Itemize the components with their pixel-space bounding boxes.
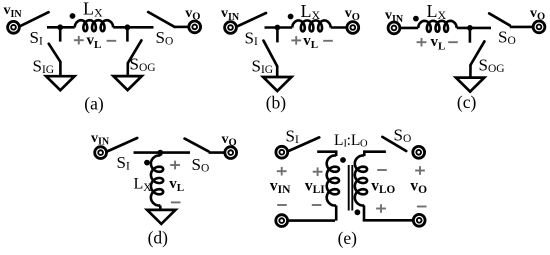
wire top node (d) [134, 151, 191, 154]
plus sign vL (d) [170, 161, 180, 170]
minus sign vL (a) [107, 40, 117, 42]
switch SO blade (a) [148, 12, 174, 27]
stub SIG-gnd (a) [59, 62, 62, 76]
svg-text:vLO: vLO [371, 177, 395, 195]
wire to bottom-left terminal (e) [289, 219, 335, 222]
svg-text:(b): (b) [266, 92, 287, 112]
svg-text:(c): (c) [457, 92, 477, 112]
terminal bottom-right (e) [413, 214, 425, 226]
wire node A left (a) [47, 26, 75, 29]
wire secondary bottom corner (e) [363, 206, 366, 221]
switch SI blade (b) [237, 13, 266, 26]
wire vIN-LX (c) [401, 27, 419, 30]
svg-text:SI: SI [245, 29, 258, 49]
svg-text:LX: LX [301, 1, 321, 22]
junction node (d) [157, 150, 163, 156]
svg-text:vIN: vIN [270, 177, 291, 195]
svg-text:SIG: SIG [252, 56, 274, 76]
wire node A (b) [265, 26, 293, 29]
svg-text:vO: vO [345, 6, 360, 23]
wire down SOG (a) [126, 27, 129, 41]
minus sign vIN (e) [277, 204, 287, 206]
minus sign vL (b) [323, 40, 333, 42]
junction node B (a) [125, 24, 131, 30]
ground SIG (a) [46, 76, 74, 90]
polarity dot LX (a) [70, 13, 76, 19]
plus sign vL (a) [74, 36, 84, 45]
inductor LX (c) [418, 21, 457, 32]
switch SI blade (e) [289, 137, 320, 151]
terminal top-right (e) [413, 146, 425, 158]
polarity dot secondary (e) [355, 209, 361, 215]
wire down SOG (c) [469, 28, 472, 43]
svg-text:SOG: SOG [130, 54, 156, 74]
plus sign vLI (e) [313, 167, 323, 176]
minus sign vO (e) [417, 206, 427, 208]
svg-text:LI:LO: LI:LO [334, 132, 368, 149]
svg-text:vLI: vLI [305, 177, 325, 195]
terminal vIN (d) [95, 147, 107, 159]
minus sign vLO (e) [377, 169, 387, 171]
svg-text:vO: vO [222, 132, 237, 149]
terminal top-left (e) [276, 146, 288, 158]
terminal vIN (b) [225, 22, 237, 34]
switch SI blade (a) [20, 12, 48, 26]
switch SI blade (d) [107, 138, 137, 151]
svg-text:SO: SO [394, 126, 412, 146]
svg-text:SI: SI [286, 127, 299, 147]
wire to vO (b) [331, 26, 347, 29]
polarity dot LX (c) [413, 16, 419, 22]
wire junction-coil (d) [159, 153, 162, 156]
terminal vO (b) [347, 22, 359, 34]
transformer primary LI (e) [327, 155, 339, 205]
transformer core bars (e) [349, 165, 353, 211]
wire SI-primary (e) [317, 150, 336, 153]
svg-text:LX: LX [83, 0, 103, 20]
svg-text:vL: vL [431, 34, 446, 52]
polarity dot primary (e) [340, 157, 346, 163]
wire down SIG (b) [276, 28, 279, 43]
svg-text:(e): (e) [338, 228, 358, 248]
plus sign vL (b) [291, 36, 301, 45]
minus sign vL (d) [171, 201, 181, 203]
svg-text:SOG: SOG [479, 55, 505, 75]
svg-text:vO: vO [185, 6, 200, 23]
wire secondary-SO (e) [364, 150, 386, 153]
wire to vO (d) [209, 151, 225, 154]
terminal vO (a) [189, 21, 201, 33]
svg-text:SI: SI [117, 153, 130, 173]
wire to vO (c) [510, 26, 533, 29]
switch SOG blade (c) [471, 41, 485, 65]
ground SOG (a) [113, 76, 141, 90]
terminal vO (d) [225, 147, 237, 159]
minus sign vL (c) [448, 41, 458, 43]
transformer secondary LO (e) [355, 155, 367, 205]
wire primary bottom corner (e) [335, 206, 338, 221]
polarity dot LX (b) [288, 14, 294, 20]
junction node B (c) [467, 25, 473, 31]
switch SOG blade (a) [128, 40, 141, 62]
svg-text:(d): (d) [148, 227, 169, 247]
terminal vO (c) [533, 21, 545, 33]
svg-text:vL: vL [169, 176, 184, 194]
ground SOG (c) [456, 78, 484, 92]
inductor LX (d) [151, 155, 163, 205]
svg-text:vIN: vIN [91, 131, 110, 148]
wire to vO (a) [175, 26, 189, 29]
svg-text:SO: SO [498, 28, 516, 48]
switch SIG blade (b) [264, 41, 278, 67]
wire node B (c) [457, 27, 491, 30]
svg-text:vIN: vIN [4, 3, 23, 20]
wire secondary top corner (e) [363, 150, 366, 156]
svg-text:LX: LX [134, 176, 153, 194]
svg-text:vO: vO [410, 177, 427, 196]
inductor LX (b) [292, 20, 331, 31]
plus sign vL (c) [417, 38, 427, 47]
svg-text:SI: SI [30, 28, 43, 48]
terminal vIN (c) [388, 22, 400, 34]
switch SO blade (d) [185, 139, 209, 152]
plus sign vIN (e) [277, 167, 287, 176]
svg-text:vL: vL [87, 33, 102, 51]
svg-text:(a): (a) [84, 94, 104, 114]
svg-text:LX: LX [427, 1, 447, 22]
junction node A (a) [57, 24, 63, 30]
wire node B (a) [113, 26, 153, 29]
svg-text:SIG: SIG [33, 57, 55, 77]
svg-text:vO: vO [530, 6, 545, 23]
inductor LX (a) [75, 20, 114, 31]
ground SIG (b) [263, 77, 291, 91]
wire down SIG (a) [59, 27, 62, 41]
stub coil-gnd (d) [159, 206, 162, 210]
stub SOG-gnd (c) [469, 65, 472, 78]
terminal vIN (a) [8, 21, 20, 33]
plus sign vLO (e) [376, 204, 386, 213]
stub SIG-gnd (b) [276, 66, 279, 77]
polarity dot LX (d) [144, 160, 150, 166]
switch SIG blade (a) [49, 44, 61, 62]
wire primary top corner (e) [335, 150, 338, 156]
switch SO blade (c) [489, 13, 510, 25]
switch SO blade (e) [382, 137, 406, 151]
terminal bottom-left (e) [276, 215, 288, 227]
wire to bottom-right terminal (e) [363, 219, 413, 222]
svg-text:vL: vL [303, 33, 318, 51]
minus sign vLI (e) [312, 204, 322, 206]
svg-text:SO: SO [156, 28, 174, 48]
plus sign vO (e) [415, 166, 425, 175]
stub SOG-gnd (a) [127, 63, 130, 76]
ground (d) [147, 210, 175, 224]
svg-text:SO: SO [192, 155, 210, 175]
junction node A (b) [275, 25, 281, 31]
